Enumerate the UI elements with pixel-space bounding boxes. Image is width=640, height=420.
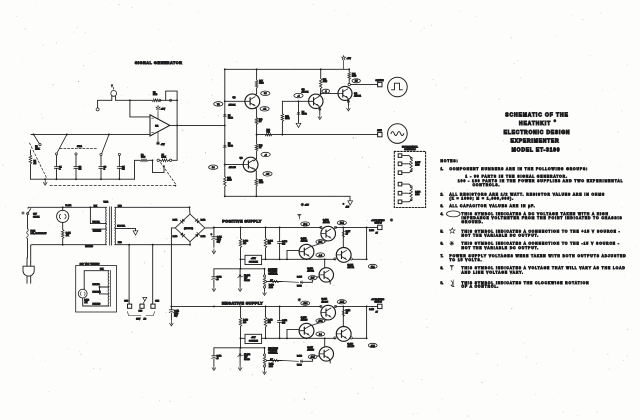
- svg-text:2.: 2.: [441, 192, 444, 196]
- svg-text:+15V: +15V: [161, 108, 166, 110]
- svg-text:.02: .02: [122, 169, 125, 171]
- svg-text:D-102: D-102: [201, 220, 206, 222]
- wire Q-108 branch: [342, 306, 344, 326]
- primary tap BLK-YEL: [92, 223, 106, 225]
- symbol varies (positive rail): [298, 214, 301, 216]
- wire to + output terminal: [367, 226, 378, 228]
- svg-text:560: 560: [267, 132, 270, 134]
- capacitor C3: [100, 156, 102, 167]
- svg-text:®: ®: [554, 119, 556, 123]
- resistor R6 6800: [140, 159, 148, 162]
- svg-text:NOT THE VARIABLE DC OUTPUT.: NOT THE VARIABLE DC OUTPUT.: [462, 234, 540, 238]
- svg-text:+15V: +15V: [305, 205, 310, 207]
- voltage oval -.6 (Q3 base): [294, 93, 303, 97]
- op-amp IC1: [150, 115, 170, 136]
- primary tap BLK-GRN: [92, 228, 106, 230]
- wire top supply bus (signal gen): [225, 68, 350, 70]
- 240V tap BLK-YEL: [100, 286, 109, 288]
- voltage oval -16.1: [316, 319, 325, 323]
- wire C-102 row: [214, 268, 265, 270]
- svg-text:GRN: GRN: [124, 301, 129, 303]
- wire Q-101 emitter to Q-102 base: [309, 242, 326, 248]
- svg-text:OUTPUT: OUTPUT: [375, 302, 383, 304]
- sine wave jack: [388, 124, 408, 144]
- wire bridge AC bottom: [189, 242, 191, 245]
- diode D1: [224, 101, 226, 114]
- resistor R16 2200 (Q2 base lower): [224, 177, 227, 187]
- capacitor C-101 2200: [213, 227, 215, 236]
- svg-text:7.1: 7.1: [217, 104, 220, 106]
- node A (bus-switch pole 1): [66, 133, 68, 135]
- wire Q-107 collector to row: [324, 338, 326, 347]
- diode D4: [298, 101, 300, 112]
- terminal SINE output: [378, 132, 382, 136]
- dashed wafer diagonal left: [30, 143, 47, 178]
- voltage oval 1.5: [352, 79, 360, 83]
- wire left vertical (Q1 base chain): [224, 69, 226, 101]
- transistor Q-106 (pass): [321, 305, 336, 320]
- svg-text:MODEL ET-3100: MODEL ET-3100: [512, 147, 561, 153]
- asterisk +15V (positive rail): [301, 204, 304, 206]
- capacitor C-112 40: [213, 348, 215, 356]
- voltage oval -15.1: [368, 343, 377, 347]
- svg-text:SW-101: SW-101: [33, 217, 39, 219]
- svg-text:R-108: R-108: [369, 230, 374, 232]
- svg-text:6800: 6800: [141, 157, 145, 159]
- -15V SOURCE box: [245, 334, 262, 343]
- wire zener branch: [240, 259, 242, 269]
- svg-text:BLK-GRN: BLK-GRN: [93, 231, 102, 233]
- wire rail Q-106 to output node: [336, 305, 367, 307]
- resistor R-101 47K: [62, 223, 64, 230]
- svg-text:4.7: 4.7: [259, 147, 262, 149]
- svg-text:TO 15 VOLTS.: TO 15 VOLTS.: [450, 258, 483, 262]
- ground (ZD-102): [239, 366, 241, 369]
- lamp PL-1: [111, 96, 113, 100]
- chassis GND terminal: [140, 304, 144, 308]
- svg-text:100K: 100K: [162, 157, 167, 159]
- svg-text:-14.4: -14.4: [340, 302, 344, 304]
- wire AC return bus: [32, 244, 106, 246]
- svg-text:40: 40: [217, 279, 219, 281]
- wire Q-101 collector: [306, 258, 308, 260]
- node H (emitter junction): [256, 134, 258, 136]
- svg-text:HEATHKIT: HEATHKIT: [519, 121, 551, 127]
- svg-text:15.1: 15.1: [371, 266, 375, 268]
- svg-text:1.5: 1.5: [355, 81, 358, 83]
- resistor R-104 560: [264, 238, 267, 248]
- svg-text:220: 220: [243, 243, 246, 245]
- svg-text:CONTROL: CONTROL: [268, 353, 277, 355]
- transistor Q-105: [299, 323, 314, 338]
- transistor Q-104: [336, 248, 351, 263]
- svg-text:BLK-RED: BLK-RED: [93, 303, 101, 305]
- svg-text:ELECTRONIC DESIGN: ELECTRONIC DESIGN: [504, 130, 571, 136]
- svg-text:GROUND.: GROUND.: [462, 220, 484, 224]
- svg-text:(ALL 57-65): (ALL 57-65): [184, 227, 193, 230]
- resistor R-113 560: [264, 317, 267, 327]
- svg-text:-16.6: -16.6: [303, 303, 307, 305]
- svg-text:D-103: D-103: [173, 236, 178, 238]
- svg-text:SQUARE: SQUARE: [376, 79, 385, 82]
- voltage oval 17.4: [301, 222, 310, 226]
- svg-text:1M: 1M: [34, 163, 37, 165]
- svg-text:4.: 4.: [441, 212, 444, 216]
- svg-text:-16.1: -16.1: [318, 321, 322, 323]
- note 8 symbol: [450, 265, 453, 267]
- svg-text:5.: 5.: [441, 229, 444, 233]
- resistor R22 4.7 (Q2 emitter): [254, 159, 257, 162]
- wire Q4 base: [321, 92, 338, 94]
- capacitor C-111 2000: [170, 306, 172, 309]
- svg-text:56-56: 56-56: [297, 286, 302, 288]
- experimental controls dashed box: [394, 151, 425, 207]
- voltage oval 8.6: [261, 91, 270, 95]
- 240V wiring top BLK: [84, 271, 109, 290]
- node I (Q3 base): [298, 100, 300, 102]
- svg-text:-15V: -15V: [346, 207, 350, 209]
- svg-text:417-235: 417-235: [301, 320, 308, 322]
- svg-text:4.7: 4.7: [346, 233, 348, 235]
- +15V SOURCE box: [245, 255, 262, 264]
- svg-text:56-56: 56-56: [302, 114, 307, 116]
- terminal input: [96, 108, 99, 111]
- svg-text:47K: 47K: [66, 235, 70, 237]
- svg-text:200: 200: [282, 323, 285, 325]
- transistor Q2: [243, 157, 258, 172]
- potentiometer R7 100K: [157, 159, 159, 161]
- wire output riser (neg): [366, 306, 368, 338]
- Q4 emitter ground: [347, 98, 350, 100]
- svg-text:220: 220: [243, 322, 246, 324]
- wire sine output line: [257, 134, 378, 136]
- asterisk mark (below controls box): [390, 219, 393, 221]
- wire op-amp output: [170, 124, 225, 126]
- svg-text:1000: 1000: [153, 94, 157, 96]
- svg-text:-15.1: -15.1: [371, 345, 375, 347]
- svg-text:1500: 1500: [285, 118, 289, 120]
- resistor R24 1000 (Q4 collector): [348, 69, 350, 72]
- voltage oval -1.4: [316, 253, 325, 257]
- svg-text:Q-105: Q-105: [301, 317, 307, 319]
- wire negative sense row: [262, 337, 335, 339]
- Q-107 emitter down: [329, 359, 330, 361]
- resistor R17 1000 (Q1 collector): [255, 94, 256, 96]
- wire Q-103 collector to row: [324, 259, 326, 268]
- svg-text:417-801: 417-801: [347, 267, 354, 269]
- -15V asterisk (op-amp): [157, 132, 159, 142]
- svg-text:2000: 2000: [269, 366, 273, 368]
- svg-text:Q-104: Q-104: [347, 263, 353, 266]
- capacitor C1: [56, 155, 58, 167]
- svg-text:2200: 2200: [227, 180, 231, 182]
- wire capacitor common bus: [45, 178, 134, 180]
- svg-text:200: 200: [282, 244, 285, 246]
- potentiometer R-105 (positive control): [264, 269, 266, 275]
- svg-text:1.5A, SLOW-BLOW: 1.5A, SLOW-BLOW: [31, 232, 47, 235]
- svg-text:4.7: 4.7: [376, 232, 378, 234]
- svg-text:IMPEDANCE VOLTMETER FROM THE P: IMPEDANCE VOLTMETER FROM THE POINT INDIC…: [462, 216, 623, 220]
- ground (C-102): [213, 287, 215, 290]
- svg-text:-15V: -15V: [161, 144, 166, 146]
- wire R7 wiper loop: [153, 160, 165, 172]
- wire Q-105 base: [287, 329, 299, 338]
- transistor Q4: [338, 86, 352, 100]
- wire +15V source left: [241, 258, 246, 260]
- capacitor C-114 200: [279, 306, 281, 320]
- wire AC line bus: [28, 206, 106, 208]
- node G (Q2 base): [224, 164, 226, 166]
- diode D-105: [271, 281, 283, 283]
- transistor Q-101: [299, 244, 314, 259]
- wire positive rail: [214, 226, 321, 228]
- svg-text:+15V: +15V: [251, 258, 257, 260]
- svg-text:417-235: 417-235: [347, 346, 354, 348]
- switch SW-1 pole 1 contact 2: [75, 153, 77, 155]
- svg-text:417-841: 417-841: [323, 222, 330, 224]
- node C (R6-R7): [152, 159, 154, 161]
- svg-text:-8.6: -8.6: [266, 174, 269, 176]
- svg-text:D-104: D-104: [201, 236, 206, 238]
- transistor Q-108: [336, 327, 351, 342]
- wire row to output riser (neg): [352, 337, 366, 339]
- wire signal-gen ground bus: [225, 195, 350, 197]
- svg-text:BLK-GRN: BLK-GRN: [93, 292, 102, 294]
- svg-text:8.6: 8.6: [264, 93, 267, 95]
- svg-text:14.4: 14.4: [340, 223, 344, 225]
- svg-text:(K = 1000; M = 1,000,000).: (K = 1000; M = 1,000,000).: [450, 196, 515, 200]
- note 4 oval symbol: [447, 211, 461, 217]
- svg-text:SOURCE: SOURCE: [249, 340, 259, 342]
- svg-text:-1.4: -1.4: [319, 255, 322, 257]
- voltage oval -16.6: [301, 301, 310, 305]
- transistor Q-103: [319, 268, 333, 282]
- svg-text:THIS SYMBOL INDICATES A CONNEC: THIS SYMBOL INDICATES A CONNECTION TO TH…: [462, 241, 620, 245]
- Q3 emitter ground: [319, 106, 320, 108]
- svg-text:417-801: 417-801: [354, 96, 361, 98]
- svg-text:COMPONENT NUMBERS ARE IN THE F: COMPONENT NUMBERS ARE IN THE FOLLOWING G…: [450, 167, 589, 171]
- wire feedback to op-amp output: [176, 125, 178, 160]
- resistor R-103 220: [239, 239, 242, 248]
- svg-text:.02: .02: [79, 169, 82, 171]
- +15V star (op-amp): [157, 111, 159, 120]
- dashed gang diagonal: [161, 163, 177, 186]
- svg-text:1000: 1000: [352, 76, 356, 78]
- svg-text:IC1: IC1: [155, 126, 159, 128]
- svg-text:EXPERIMENTAL: EXPERIMENTAL: [402, 145, 419, 148]
- svg-text:SOURCE: SOURCE: [249, 261, 259, 263]
- svg-text:2000: 2000: [269, 287, 273, 289]
- lamp PL-101: [62, 206, 64, 208]
- ground (C-112): [213, 366, 215, 369]
- svg-text:POSITIVE SUPPLY: POSITIVE SUPPLY: [222, 219, 262, 224]
- wire -15V source left: [241, 337, 246, 339]
- voltage oval 1.1: [209, 165, 218, 169]
- svg-text:1000: 1000: [415, 165, 419, 167]
- svg-text:56-56: 56-56: [228, 146, 233, 148]
- svg-text:417-801: 417-801: [229, 105, 236, 107]
- svg-text:20V: 20V: [217, 242, 221, 244]
- wire Q2 base: [225, 164, 243, 166]
- svg-text:417-801: 417-801: [307, 271, 314, 273]
- voltage oval -14.4: [337, 300, 346, 304]
- ground (D4): [296, 123, 301, 127]
- wire output riser: [366, 227, 368, 259]
- voltage oval .1: [322, 89, 330, 93]
- wire feedback divider: [135, 160, 141, 179]
- switch SW-1 pole 2 contact 2: [118, 153, 120, 155]
- wire Q-101 base: [287, 250, 299, 259]
- svg-text:+15V: +15V: [347, 58, 352, 60]
- svg-text:NOTES:: NOTES:: [441, 159, 459, 163]
- svg-text:.1: .1: [104, 169, 106, 171]
- svg-text:RED-YEL: RED-YEL: [117, 226, 125, 228]
- wire Q-104 branch: [342, 227, 344, 247]
- svg-text:EXPERIMENTER: EXPERIMENTER: [510, 139, 559, 145]
- 240V bottom BLK-RED: [83, 298, 109, 306]
- svg-text:GRN: GRN: [155, 301, 160, 303]
- resistor R5 1000: [152, 99, 159, 102]
- svg-text:56-620: 56-620: [244, 280, 250, 282]
- node K (Q4 collector / square out): [348, 83, 350, 85]
- line cord bracket: [128, 312, 142, 316]
- wire square output: [350, 84, 377, 86]
- ground (C-111): [170, 321, 172, 324]
- 240V lamp: [78, 289, 87, 298]
- potentiometer R-107: [398, 154, 402, 158]
- resistor R23 560 (sine line): [265, 133, 272, 136]
- wire node to R5: [130, 99, 152, 101]
- node D: [129, 99, 131, 101]
- svg-text:4.7: 4.7: [259, 121, 262, 123]
- svg-text:D-106: D-106: [297, 356, 302, 358]
- voltage oval -1.1: [260, 107, 269, 111]
- voltage oval 7.1: [214, 102, 223, 106]
- capacitor C2: [75, 155, 77, 167]
- wire D-105 to Q-103 base: [302, 277, 319, 282]
- secondary top lead RED: [115, 206, 190, 208]
- note 6 asterisk symbol: [450, 242, 454, 244]
- wire negative rail: [171, 305, 321, 307]
- node B (bus-switch pole 2): [108, 133, 110, 135]
- svg-text:Q-103: Q-103: [307, 268, 313, 270]
- wire zener branch (neg): [240, 338, 242, 348]
- resistor R20 1000 (Q2 collector): [254, 168, 257, 171]
- capacitor C-104 200: [279, 227, 281, 241]
- svg-text:GND: GND: [139, 310, 144, 312]
- fuse F-101: [27, 215, 29, 229]
- svg-text:BLK-YEL: BLK-YEL: [93, 221, 100, 223]
- svg-text:50V: 50V: [174, 316, 178, 318]
- svg-text:-13.7: -13.7: [310, 357, 314, 359]
- wire bridge positive output: [205, 227, 214, 229]
- svg-text:417-235: 417-235: [229, 167, 236, 169]
- ground (C-101): [213, 249, 215, 252]
- svg-text:16.1: 16.1: [318, 242, 322, 244]
- ground (center tap): [133, 231, 138, 235]
- svg-text:417-235: 417-235: [307, 350, 314, 352]
- wire bridge AC top: [189, 207, 192, 214]
- voltage oval -13.7: [308, 355, 317, 359]
- 240V tap BLK-GRN: [100, 293, 109, 295]
- 240V coil: [107, 271, 110, 306]
- svg-text:SIGNAL GENERATOR: SIGNAL GENERATOR: [135, 61, 183, 65]
- svg-text:1.4: 1.4: [319, 334, 322, 336]
- svg-text:BLK-YEL: BLK-YEL: [93, 284, 100, 286]
- svg-text:47K: 47K: [84, 302, 88, 304]
- svg-text:1.1: 1.1: [212, 167, 215, 169]
- svg-text:D-101: D-101: [173, 220, 178, 222]
- svg-text:AND LINE VOLTAGE VARY.: AND LINE VOLTAGE VARY.: [462, 270, 524, 274]
- svg-text:CONTROL: CONTROL: [268, 274, 277, 276]
- svg-text:CONTROLS.: CONTROLS.: [473, 183, 501, 187]
- wire input bus: [31, 133, 150, 135]
- wire lamp to node: [116, 99, 130, 101]
- resistor R-110 220: [239, 318, 242, 327]
- svg-text:120V: 120V: [136, 318, 141, 320]
- svg-text:56-56: 56-56: [228, 118, 233, 120]
- svg-text:-15V: -15V: [251, 337, 256, 339]
- transistor Q-102 (pass): [321, 226, 336, 241]
- svg-text:1.: 1.: [441, 167, 444, 171]
- resistor R-112 2000: [264, 367, 266, 369]
- ground (ZD-101): [239, 287, 241, 290]
- svg-text:Q1: Q1: [233, 97, 237, 99]
- svg-text:3.: 3.: [441, 204, 444, 208]
- wire Q1 base: [225, 100, 245, 102]
- voltage oval 13.7: [308, 276, 317, 280]
- wire row to output riser: [352, 258, 366, 260]
- transistor Q3: [299, 100, 309, 102]
- terminal -1.2 TO 15 VDC OUTPUT: [378, 304, 382, 308]
- svg-text:.1: .1: [59, 169, 61, 171]
- svg-text:NOT THE VARIABLE DC OUTPUT.: NOT THE VARIABLE DC OUTPUT.: [462, 246, 540, 250]
- ground bus end chassis: [349, 196, 351, 200]
- svg-text:AC: AC: [144, 317, 147, 320]
- svg-text:.1: .1: [325, 91, 327, 93]
- svg-text:BLK-RED: BLK-RED: [85, 246, 93, 248]
- svg-text:ALL CAPACITOR VALUES ARE IN µF: ALL CAPACITOR VALUES ARE IN µF.: [450, 204, 536, 208]
- svg-text:Q4: Q4: [354, 92, 358, 95]
- resistor R18 1500: [281, 122, 283, 135]
- svg-text:4.7: 4.7: [376, 311, 378, 313]
- resistor R21 4700 (Q3 collector load): [319, 95, 321, 97]
- ground (R-106): [264, 291, 266, 294]
- wire bridge negative output: [171, 228, 175, 306]
- wire to - output terminal: [367, 305, 378, 307]
- AC plug: [23, 266, 34, 276]
- wire op-amp inverting input: [130, 100, 150, 117]
- zener ZD-101: [239, 269, 241, 275]
- svg-text:7.: 7.: [441, 254, 444, 258]
- svg-text:417-235: 417-235: [321, 301, 328, 303]
- svg-text:R-115: R-115: [369, 309, 374, 311]
- square wave jack: [388, 77, 408, 97]
- node J (Q3 collector / Q4 base): [320, 92, 322, 94]
- svg-text:56-620: 56-620: [244, 359, 250, 361]
- svg-text:8.: 8.: [441, 266, 444, 270]
- note 9 symbol: [451, 281, 453, 286]
- capacitor C-102 40: [213, 269, 215, 277]
- secondary center tap RED-YEL: [115, 227, 136, 229]
- terminal +1.2 TO 15 VDC OUTPUT: [378, 225, 382, 229]
- wire regulator sense row: [262, 258, 335, 260]
- potentiometer R-108: [398, 182, 402, 186]
- resistor R-106 2000: [264, 288, 266, 290]
- voltage oval -.6: [261, 152, 270, 156]
- svg-text:V: V: [111, 86, 113, 88]
- capacitor C4: [118, 156, 120, 167]
